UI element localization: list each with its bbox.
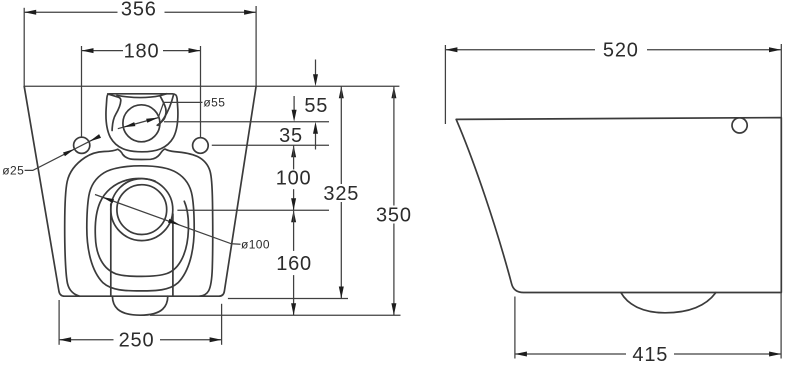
dim 520 extension left <box>444 45 446 124</box>
flush valve circle (ø55) <box>123 105 160 142</box>
svg-text:ø100: ø100 <box>241 238 270 252</box>
reference line6 (outlet bottom, 350) <box>150 314 401 316</box>
fixing hole right <box>193 138 209 154</box>
dim 415 line <box>515 353 626 355</box>
dim 325 line with arrows <box>339 86 344 98</box>
dim 415 extension left <box>514 297 516 359</box>
leader ø55: bent leader to label <box>158 102 202 117</box>
svg-text:250: 250 <box>119 330 155 352</box>
svg-text:ø25: ø25 <box>2 164 24 178</box>
bowl outer blob <box>65 149 213 296</box>
svg-text:325: 325 <box>323 183 359 205</box>
dim 100 line with arrows <box>291 145 296 157</box>
dim 350 line with arrows <box>391 86 396 98</box>
svg-text:356: 356 <box>121 0 157 20</box>
dim 356 line <box>24 11 117 13</box>
leader ø55: diameter line through circle <box>118 118 159 129</box>
tank inner top band <box>117 95 160 97</box>
side view body outline <box>456 118 781 293</box>
reference line3 (hole centers) <box>212 144 329 146</box>
inner bowl scroll curve <box>95 178 188 276</box>
dim 180 extension left <box>81 46 83 137</box>
tank left corner wedge and sweep <box>108 94 121 131</box>
dim 415 extension right (below body) <box>780 293 782 359</box>
dim 180 line <box>82 50 124 52</box>
dim 520 line <box>445 49 595 51</box>
tank (inlet shroud) outer outline <box>106 94 178 152</box>
dim 55 lower arrow <box>315 133 317 150</box>
svg-text:160: 160 <box>276 253 312 275</box>
top reference line (line1) <box>24 85 399 87</box>
reference line4 (ring center) <box>177 209 329 211</box>
svg-text:100: 100 <box>276 167 312 189</box>
reference line2 (55 below top) <box>164 121 329 123</box>
sump ring inner <box>117 185 167 235</box>
dim 180 extension right <box>200 46 202 137</box>
dim 356 extension right <box>255 6 257 86</box>
leader ø25 <box>25 138 96 170</box>
side view outlet arc <box>621 293 716 313</box>
dim 35 upper arrow <box>293 96 295 111</box>
tank right corner wedge <box>157 94 167 126</box>
dim 160 line with arrows <box>291 210 296 222</box>
dim 250 line <box>59 339 113 341</box>
tank right corner inner arc <box>158 95 173 126</box>
dim 250 extension left <box>58 300 60 345</box>
svg-text:415: 415 <box>632 344 668 365</box>
reference line5 (bottom edge, 325) <box>228 298 348 300</box>
svg-text:35: 35 <box>279 125 303 147</box>
svg-text:180: 180 <box>124 40 160 62</box>
toilet body trapezoid outline <box>24 86 256 296</box>
leader ø100 <box>95 195 241 245</box>
dim 250 extension right <box>221 304 223 345</box>
dim 55 upper arrow <box>315 60 317 77</box>
trapway channel left line <box>110 204 112 296</box>
dim 356 extension left <box>23 8 25 87</box>
sump ring outer (ø100) <box>111 179 173 241</box>
svg-text:350: 350 <box>376 204 412 226</box>
dim 520 extension right (above body) <box>780 44 782 118</box>
side fixing hole <box>732 118 747 133</box>
svg-text:520: 520 <box>603 40 639 62</box>
fixing hole left (ø25) <box>74 137 90 153</box>
svg-text:ø55: ø55 <box>203 95 225 109</box>
svg-text:55: 55 <box>304 95 328 117</box>
trapway channel right line <box>172 214 174 296</box>
bowl rim egg outline <box>87 166 194 291</box>
outlet bump below bottom edge <box>112 296 167 315</box>
